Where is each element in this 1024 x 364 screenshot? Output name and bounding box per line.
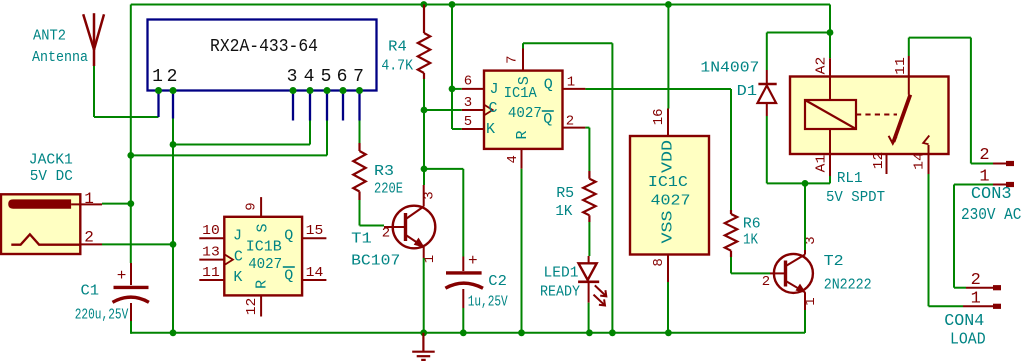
svg-text:5: 5 [321,67,332,87]
wire C2 to rail [462,308,464,333]
junction +5V / RX2A pin5 wire [127,152,134,159]
wire R4 to junctions [423,79,425,185]
capacitor C1 [113,267,149,321]
svg-text:Q: Q [284,227,293,244]
IC1B pin 9 (S) [244,197,262,217]
RX2A pin 2 [167,67,178,119]
svg-text:IC1B: IC1B [246,239,282,256]
svg-text:4027: 4027 [508,105,542,122]
wire +5V to IC1C pin16 [667,5,669,109]
IC1B pin 14 (Qbar) [302,265,326,281]
wire IC1A R pin4 to GND [521,169,523,333]
relay switch blade pin 11 [889,56,911,144]
svg-text:5V DC: 5V DC [30,168,73,185]
label 1K (R5) [555,203,572,220]
svg-text:2: 2 [971,271,981,290]
svg-text:1: 1 [567,75,575,91]
wire JACK1 pin1 to +5V [102,203,131,205]
wire +5V top rail [131,4,830,6]
svg-text:T2: T2 [824,253,844,270]
svg-text:JACK1: JACK1 [29,152,73,169]
svg-text:R5: R5 [556,185,574,202]
svg-text:6: 6 [337,67,348,87]
wire RX2A pin4 to GND [173,121,310,145]
wire R6 to T2 base [731,257,770,273]
IC1A pin 6 (J) [462,74,484,90]
junction R wire / rail [518,329,525,336]
label LOAD [950,331,986,350]
relay pin A2 [814,57,831,100]
svg-text:Q: Q [544,77,553,94]
junction top rail / R4 [420,1,427,8]
IC1C texts [648,140,691,244]
wire IC1A S pin7 to GND [523,43,612,333]
junction bottom rail / GND vertical [170,329,177,336]
IC1B texts [233,223,295,288]
svg-text:R: R [514,130,531,139]
T1 pin 2 label [382,226,390,242]
wire IC1C pin8 to rail [667,282,669,333]
label LED1 [544,264,579,281]
transistor T2 2N2222 [770,250,813,310]
svg-text:14: 14 [306,265,324,281]
label Antenna [32,49,88,66]
svg-text:READY: READY [540,283,580,300]
svg-text:IC1C: IC1C [648,174,688,191]
resistor R4 [418,5,430,80]
label READY [540,283,580,300]
svg-text:11: 11 [893,57,909,75]
svg-text:C1: C1 [81,283,100,300]
svg-text:J: J [489,81,498,98]
svg-text:1: 1 [803,297,819,305]
wire JACK1 pin2 to GND vert [102,243,173,245]
svg-text:16: 16 [651,108,667,125]
junction GND vert / JACK1 pin2 [170,241,177,248]
svg-text:3: 3 [287,67,298,87]
wire D1 cathode to A2 net [767,33,830,84]
junction +5V / JACK1 pin1 [127,200,134,207]
wire LED1 to rail [588,303,590,333]
wire D1 anode to A1 net [767,103,830,183]
junction J/K wire [449,86,456,93]
svg-text:IC1A: IC1A [504,85,537,102]
T1 pin 1 label [422,255,438,263]
svg-text:1N4007: 1N4007 [700,60,759,77]
connector CON3 pin 2 [979,146,1014,166]
svg-text:220E: 220E [374,181,403,198]
wire R5 to LED1 [588,222,590,256]
JACK1 barrel [8,199,71,208]
svg-text:220u,25V: 220u,25V [75,307,129,324]
svg-text:Q: Q [543,111,552,128]
IC1A pin 7 (S) [505,49,524,71]
svg-text:7: 7 [353,67,364,87]
svg-text:A1: A1 [814,155,830,173]
svg-text:S: S [516,76,533,85]
junction R4 / C2 wire [421,166,428,173]
label 4.7K [381,58,413,75]
label 230V AC [961,206,1022,225]
RX2A pin 4 [304,67,315,121]
T2 pin 1 label [803,297,819,305]
svg-text:K: K [486,121,495,138]
junction S wire / rail [609,329,616,336]
antenna ANT2 symbol [83,13,104,66]
RX2A pin 5 [321,67,332,121]
svg-text:T1: T1 [351,230,372,247]
svg-text:3: 3 [422,191,438,199]
label 1K (R6) [743,232,758,249]
svg-text:D1: D1 [737,83,757,100]
IC 4027 IC1C body [630,136,709,255]
svg-text:C: C [488,100,497,117]
capacitor C2 [445,169,483,308]
svg-text:VDD: VDD [659,140,676,173]
wire RX2A pin7 to R3 [359,121,361,144]
IC1A pin 5 (K) [462,114,484,130]
svg-text:5V SPDT: 5V SPDT [826,189,885,206]
svg-text:Q: Q [284,268,293,285]
svg-text:LED1: LED1 [544,264,579,281]
svg-text:+: + [117,267,127,285]
RX2A pin 7 [353,67,364,121]
svg-text:9: 9 [244,202,260,210]
svg-text:2: 2 [167,67,178,87]
label T1 [351,230,372,247]
svg-text:4: 4 [304,67,315,87]
svg-text:1: 1 [971,290,981,309]
wire GND vertical (JACK1 pin2 / RX2A pin2 net) [172,119,174,333]
JACK1 sleeve contact [11,234,80,244]
label CON3 [971,185,1012,204]
label C2 [488,273,507,290]
svg-text:S: S [254,223,271,232]
label 5V SPDT [826,189,885,206]
resistor R3 [353,143,365,200]
wire IC1A Qbar to R5 [585,128,589,171]
JACK1 pin 2 [80,229,102,247]
wire junction to C2 [424,168,464,170]
svg-text:15: 15 [306,223,324,239]
svg-text:3: 3 [464,95,472,111]
svg-text:5: 5 [464,114,472,130]
svg-text:J: J [233,227,242,244]
svg-text:11: 11 [202,265,220,281]
junction A1 / T2 collector [802,180,809,187]
module RX2A-433-64 box [148,20,377,91]
svg-text:12: 12 [244,298,260,316]
IC1B pin 11 (K) [199,265,224,281]
connector CON4 pin 2 [966,271,1001,291]
svg-text:4027: 4027 [651,193,691,210]
wire C1 to bottom rail [130,321,132,333]
RX2A pin 1 [152,67,163,117]
label R5 [556,185,574,202]
IC1A pin 2 (Qbar) [563,113,586,129]
label 1u,25V [468,293,508,310]
IC1B pin 13 (C) [199,244,233,265]
label 220u,25V [75,307,129,324]
connector CON3 pin 1 [979,168,1014,188]
wire R3 to T1 base [360,200,385,226]
label ANT2 [33,28,66,45]
flip-flop IC1A body [484,71,563,149]
wire A1 to D1/T2 [829,176,831,183]
connector JACK1 body [1,194,80,254]
relay dashed link [856,114,897,116]
label RL1 [837,170,863,187]
svg-text:14: 14 [912,152,928,170]
T1 pin 3 label [422,191,438,199]
wire T2 emitter to rail [804,310,806,333]
ground symbol [412,333,435,360]
svg-text:R3: R3 [374,163,394,180]
svg-text:12: 12 [871,152,887,170]
resistor R5 [583,171,595,222]
label CON4 [944,312,984,331]
wire +5V to IC1A J and K [452,5,462,130]
svg-text:1K: 1K [555,203,572,220]
label R6 [743,216,761,233]
T2 pin 2 label [762,274,770,290]
connector CON4 pin 1 [963,290,1001,309]
RX2A pin 3 [287,67,298,121]
svg-text:2: 2 [566,113,574,129]
svg-text:RL1: RL1 [837,170,863,187]
IC1B pin 15 (Q) [302,223,326,239]
svg-text:ANT2: ANT2 [33,28,66,45]
svg-text:10: 10 [202,223,220,239]
IC1A texts [486,76,554,139]
svg-text:R6: R6 [743,216,761,233]
svg-text:7: 7 [505,55,521,63]
svg-text:2: 2 [979,146,989,165]
junction LED1 / rail [586,329,593,336]
svg-text:C: C [234,249,243,266]
svg-text:CON4: CON4 [944,312,984,331]
T2 pin 3 label [803,236,819,244]
label JACK1 [29,152,73,169]
svg-text:R: R [254,280,271,289]
label D1 [737,83,757,100]
junction top rail / IC1C VDD [665,1,672,8]
IC1A pin 1 (Q) [563,75,586,91]
IC1A pin 4 (R) [505,149,522,169]
wire to IC1A pin3 [424,109,462,111]
svg-text:BC107: BC107 [351,252,400,269]
svg-text:C2: C2 [488,273,507,290]
svg-text:4.7K: 4.7K [381,58,413,75]
svg-text:CON3: CON3 [971,185,1012,204]
svg-text:A2: A2 [814,57,830,75]
transistor T1 BC107 [384,185,435,258]
relay RL1 body [790,77,949,155]
svg-text:1: 1 [152,67,163,87]
svg-text:RX2A-433-64: RX2A-433-64 [210,37,318,57]
flip-flop IC1B body [224,217,302,296]
svg-text:R4: R4 [388,38,407,55]
relay pin 12 [871,152,887,174]
junction A2 / D1 [827,29,834,36]
RX2A pin 6 [337,67,348,121]
svg-text:6: 6 [464,74,472,90]
relay pin A1 [814,129,831,176]
svg-text:8: 8 [651,258,667,266]
junction top rail / relay A2 [829,5,831,59]
IC1C pin 8 (VSS) [651,255,668,283]
svg-text:+: + [468,252,478,270]
relay contact pin 14 [912,136,930,175]
IC1C pin 16 (VDD) [651,108,668,136]
svg-text:4: 4 [505,155,521,163]
label R3 [374,163,394,180]
junction T1 emitter / rail [420,329,427,336]
label R4 [388,38,407,55]
svg-text:Antenna: Antenna [32,49,88,66]
wire relay pin14 to CON4 pin1 [929,174,964,306]
junction C2 / rail [460,329,467,336]
junction R4 / IC1A clock wire [421,107,428,114]
label BC107 [351,252,400,269]
wire CON3 pin1 to CON4 pin2 [954,185,993,288]
svg-text:LOAD: LOAD [950,331,986,350]
junction IC1C / rail [665,329,672,336]
wire RX2A pin5 to +5V [131,121,327,156]
junction GND vert / RX2A pin4 wire [170,141,177,148]
svg-text:2N2222: 2N2222 [824,276,872,293]
label 1N4007 [700,60,759,77]
IC1A pin 3 (C) [462,95,493,115]
wire GND bottom rail [131,332,805,334]
label 5V DC [30,168,73,185]
svg-text:1: 1 [84,190,94,208]
wire relay pin11 to CON3 pin2 [909,38,993,164]
relay coil [805,100,856,129]
junction top rail / J-K wire [449,1,456,8]
label T2 [824,253,844,270]
svg-text:230V AC: 230V AC [961,206,1022,225]
wire T1 emitter to GND rail [423,258,425,333]
label 2N2222 [824,276,872,293]
label C1 [81,283,100,300]
resistor R6 [725,210,737,257]
label 220E [374,181,403,198]
label RX2A-433-64 [210,37,318,57]
IC1B pin 12 (R) [244,295,261,316]
svg-text:13: 13 [202,244,220,260]
wire antenna to RX2A pin1 [94,65,159,117]
JACK1 pin 1 [71,190,102,208]
wire +5V left vertical [130,5,132,286]
svg-text:1K: 1K [743,232,758,249]
svg-text:4027: 4027 [248,256,282,273]
LED LED1 [578,256,606,306]
svg-text:1u,25V: 1u,25V [468,293,508,310]
svg-text:2: 2 [84,229,94,247]
svg-text:VSS: VSS [659,211,676,244]
svg-text:K: K [233,269,242,286]
svg-text:2: 2 [762,274,770,290]
wire IC1A Q to R6 [585,89,731,210]
svg-text:2: 2 [382,226,390,242]
wire A1 junction to T2 collector [804,183,806,250]
diode D1 1N4007 [758,84,777,103]
IC1B pin 10 (J) [199,223,224,239]
